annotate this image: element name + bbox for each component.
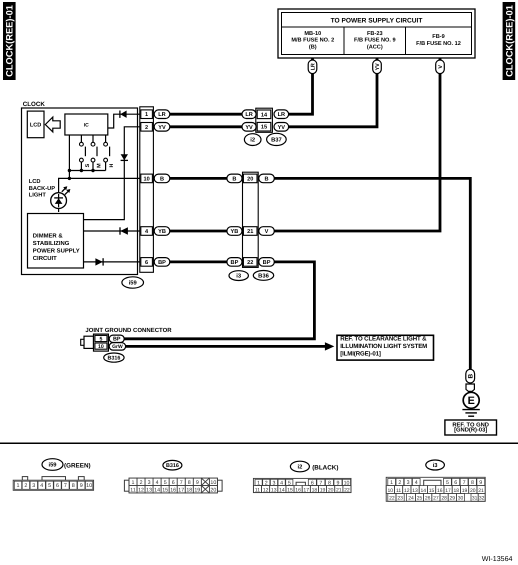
svg-text:JOINT GROUND CONNECTOR: JOINT GROUND CONNECTOR <box>85 327 172 334</box>
wire label B (B36 side, pin 20) <box>259 174 275 183</box>
svg-text:6: 6 <box>172 480 175 486</box>
connector view i3 body <box>386 477 485 501</box>
svg-text:(GREEN): (GREEN) <box>64 462 91 469</box>
connector view i2 (BLACK) body <box>253 478 351 493</box>
svg-text:CIRCUIT: CIRCUIT <box>33 255 57 262</box>
connector i2/B37 bracket <box>256 108 273 132</box>
svg-text:3: 3 <box>32 483 35 489</box>
svg-text:28: 28 <box>441 496 447 502</box>
arrow to clearance/illumination reference <box>325 342 334 350</box>
svg-text:15: 15 <box>261 125 267 131</box>
connector pin 20 <box>243 174 257 183</box>
connector view label i2 <box>290 461 338 472</box>
wire YB clock pin 4 to connector i3 pin 21 <box>170 230 227 233</box>
connector pin 15 <box>257 122 271 131</box>
wire BP from connector B36 pin 22 to joint ground connector pin 5 <box>124 262 314 339</box>
connector label B316 (joint ground) <box>104 353 124 362</box>
wire B from connector B36 pin 20 to ground terminal E <box>274 178 470 384</box>
power supply block frame <box>278 9 475 58</box>
connector pin 21 <box>243 227 257 236</box>
connector i59 body <box>140 107 154 272</box>
wire YV clock pin 2 to connector i2 pin 15 <box>170 125 242 128</box>
wire IC left leg to switch bus <box>68 135 70 178</box>
svg-text:15: 15 <box>287 487 293 493</box>
svg-text:11: 11 <box>396 488 401 494</box>
svg-text:BACK-UP: BACK-UP <box>29 186 55 192</box>
joint ground connector body <box>94 334 109 351</box>
svg-text:20: 20 <box>210 487 216 493</box>
svg-text:B37: B37 <box>271 136 282 143</box>
fuse MB-10 M/B FUSE NO. 2 (B) <box>291 31 334 51</box>
svg-text:19: 19 <box>462 488 468 494</box>
svg-text:REF. TO CLEARANCE LIGHT &: REF. TO CLEARANCE LIGHT & <box>340 335 427 342</box>
svg-text:B316: B316 <box>166 463 179 469</box>
wire label B (i3 side, pin 20) <box>227 174 242 183</box>
svg-text:7: 7 <box>64 483 67 489</box>
page title label left (CLOCK(REE)-01) <box>3 2 16 80</box>
svg-text:3: 3 <box>407 480 410 486</box>
svg-text:22: 22 <box>389 496 395 502</box>
svg-text:26: 26 <box>425 496 431 502</box>
document number <box>482 555 513 563</box>
connector view label i59 <box>42 459 91 471</box>
svg-text:2: 2 <box>24 483 27 489</box>
wire YV from fuse FB-23 down to connector i2 pin 15 <box>289 58 377 127</box>
svg-text:B: B <box>468 373 475 378</box>
svg-text:WI-13564: WI-13564 <box>482 555 513 563</box>
svg-text:BP: BP <box>263 260 271 266</box>
svg-text:7: 7 <box>180 480 183 486</box>
wire label BP (i3 side, pin 22) <box>227 258 242 267</box>
op-amp IC U1 <box>65 114 108 135</box>
svg-text:20: 20 <box>470 488 476 494</box>
svg-text:17: 17 <box>178 487 184 493</box>
svg-text:24: 24 <box>408 496 414 502</box>
svg-text:18: 18 <box>186 487 192 493</box>
connector view i59 (GREEN) body <box>13 477 93 491</box>
svg-text:YV: YV <box>278 125 286 131</box>
wire ACC pin 2 net down to dimmer circuit <box>84 127 141 220</box>
svg-text:14: 14 <box>261 112 268 118</box>
svg-text:30: 30 <box>458 496 464 502</box>
svg-text:IC: IC <box>84 122 89 128</box>
joint ground connector label <box>85 327 172 334</box>
connector i3/B36 bracket <box>243 172 259 267</box>
joint ground connector housing <box>81 336 94 348</box>
svg-text:(ACC): (ACC) <box>367 43 383 50</box>
svg-text:LR: LR <box>158 112 165 118</box>
wire V from fuse FB-9 down to connector B36 pin 21 <box>274 58 440 231</box>
svg-text:M/B FUSE NO. 2: M/B FUSE NO. 2 <box>291 37 334 44</box>
svg-text:B: B <box>232 176 236 182</box>
svg-text:B36: B36 <box>258 272 269 279</box>
svg-text:YV: YV <box>158 125 166 131</box>
svg-text:17: 17 <box>445 488 451 494</box>
svg-text:1: 1 <box>132 480 135 486</box>
reference box clearance/illumination <box>337 335 434 360</box>
svg-text:8: 8 <box>72 483 75 489</box>
svg-text:TO POWER SUPPLY CIRCUIT: TO POWER SUPPLY CIRCUIT <box>331 17 423 24</box>
svg-text:10: 10 <box>210 480 216 486</box>
diode D4 (ground side) <box>95 258 103 265</box>
svg-text:2: 2 <box>398 480 401 486</box>
connector i59 pin 1 <box>141 110 153 119</box>
svg-text:(BLACK): (BLACK) <box>312 464 338 471</box>
svg-text:LCD: LCD <box>29 179 41 185</box>
wire dimmer to pin 6 (BP) <box>84 261 141 263</box>
wire label LR (i2 side, pin 14) <box>242 110 256 119</box>
svg-text:1: 1 <box>17 483 20 489</box>
connector view label i3 <box>426 460 445 470</box>
svg-text:FB-9: FB-9 <box>432 34 444 40</box>
connector i59 pin 4 <box>141 227 153 236</box>
svg-text:i3: i3 <box>236 273 242 280</box>
reference box GND <box>445 420 497 435</box>
wire label LR (B37 side, pin 14) <box>274 110 289 119</box>
svg-text:5: 5 <box>48 483 51 489</box>
svg-text:YB: YB <box>158 229 166 235</box>
svg-text:1: 1 <box>390 480 393 486</box>
wire label BP pin 6 <box>154 258 170 267</box>
svg-text:FB-23: FB-23 <box>367 31 383 37</box>
svg-text:13: 13 <box>146 487 152 493</box>
wire GrW from joint ground connector pin 10 to illumination system <box>126 345 326 348</box>
svg-text:7: 7 <box>463 480 466 486</box>
wire label YV (B37 side, pin 15) <box>274 123 289 132</box>
svg-text:BP: BP <box>113 337 121 343</box>
connector view B316 body <box>124 478 222 493</box>
svg-text:[ILMI(RGE)-01]: [ILMI(RGE)-01] <box>340 350 381 357</box>
svg-text:19: 19 <box>320 487 326 493</box>
svg-text:22: 22 <box>344 487 350 493</box>
wire label B (ground lead) <box>466 369 475 383</box>
svg-text:H: H <box>109 164 115 168</box>
connector view label B316 <box>163 460 182 470</box>
svg-text:2: 2 <box>145 125 148 131</box>
svg-text:8: 8 <box>188 480 191 486</box>
wire label YV (i2 side, pin 15) <box>242 123 256 132</box>
switch H (clock set) <box>104 135 115 171</box>
dimmer and stabilizing power supply circuit box <box>28 214 84 269</box>
svg-text:[GND(R)-03]: [GND(R)-03] <box>454 427 487 434</box>
connector label i3 <box>229 271 248 281</box>
svg-text:LCD: LCD <box>30 123 42 129</box>
svg-text:4: 4 <box>415 480 418 486</box>
svg-text:GrW: GrW <box>112 344 123 350</box>
wire label V (fuse output) <box>436 60 445 74</box>
svg-text:16: 16 <box>170 487 176 493</box>
svg-text:16: 16 <box>437 488 443 494</box>
svg-text:V: V <box>438 65 444 69</box>
svg-text:i2: i2 <box>250 137 255 144</box>
wire label YV pin 2 <box>154 123 170 132</box>
wire label LR (fuse output) <box>308 60 317 74</box>
svg-text:11: 11 <box>255 487 260 493</box>
svg-text:16: 16 <box>295 487 301 493</box>
svg-text:12: 12 <box>404 488 410 494</box>
svg-text:LIGHT: LIGHT <box>29 193 47 199</box>
connector pin 14 <box>257 110 271 119</box>
svg-text:CLOCK(REE)-01: CLOCK(REE)-01 <box>5 5 15 77</box>
connector i59 pin 6 <box>141 258 153 267</box>
svg-text:S: S <box>85 163 91 167</box>
svg-text:YB: YB <box>231 229 239 235</box>
svg-text:YV: YV <box>375 63 381 71</box>
wire label BP (joint ground) <box>109 335 124 343</box>
svg-text:STABILIZING: STABILIZING <box>33 240 70 247</box>
svg-text:18: 18 <box>454 488 460 494</box>
svg-text:MB-10: MB-10 <box>304 31 321 37</box>
svg-text:15: 15 <box>162 487 168 493</box>
svg-text:i3: i3 <box>433 462 439 469</box>
svg-text:4: 4 <box>156 480 159 486</box>
connector pin 22 <box>243 258 257 267</box>
svg-text:18: 18 <box>312 487 318 493</box>
svg-text:27: 27 <box>433 496 439 502</box>
svg-text:i59: i59 <box>48 462 57 469</box>
svg-text:CLOCK(REE)-01: CLOCK(REE)-01 <box>504 5 514 77</box>
svg-text:15: 15 <box>429 488 435 494</box>
svg-text:11: 11 <box>130 487 136 493</box>
svg-text:21: 21 <box>247 229 253 235</box>
wire label YV (fuse output) <box>373 60 382 74</box>
svg-text:POWER SUPPLY: POWER SUPPLY <box>33 248 80 255</box>
joint ground connector pin 10 <box>95 343 107 350</box>
ground terminal lug <box>466 384 474 393</box>
svg-text:B: B <box>160 176 164 182</box>
svg-text:6: 6 <box>454 480 457 486</box>
svg-text:14: 14 <box>154 487 160 493</box>
LCD display <box>27 111 44 138</box>
wire pin 10 net (B) to LED and connector <box>59 178 141 192</box>
wire label V (B36 side, pin 21) <box>259 227 275 236</box>
svg-text:M: M <box>96 163 102 168</box>
svg-text:10: 10 <box>98 344 104 350</box>
svg-text:LR: LR <box>310 63 316 70</box>
svg-text:5: 5 <box>100 336 103 342</box>
svg-text:DIMMER &: DIMMER & <box>33 233 64 240</box>
svg-text:19: 19 <box>194 487 200 493</box>
wire LR from fuse MB-10 down to connector i2 pin 14 <box>289 58 313 114</box>
svg-text:31: 31 <box>472 496 478 502</box>
joint ground connector pin 5 <box>95 335 107 342</box>
svg-text:13: 13 <box>271 487 277 493</box>
connector label B36 <box>253 271 273 281</box>
wire BP clock pin 6 to connector i3 pin 22 <box>170 260 227 263</box>
svg-text:10: 10 <box>86 483 92 489</box>
svg-text:14: 14 <box>279 487 285 493</box>
diode D1 (battery feed) <box>120 111 127 118</box>
connector i59 pin 2 <box>141 123 153 132</box>
svg-text:10: 10 <box>388 488 394 494</box>
svg-text:12: 12 <box>263 487 269 493</box>
svg-text:(B): (B) <box>309 43 317 50</box>
LCD back-up light label <box>29 179 55 199</box>
svg-text:6: 6 <box>145 260 148 266</box>
svg-text:32: 32 <box>479 496 485 502</box>
svg-text:E: E <box>468 395 475 407</box>
connector label i2 <box>244 134 261 146</box>
svg-text:BP: BP <box>158 260 166 266</box>
svg-text:4: 4 <box>40 483 43 489</box>
svg-text:21: 21 <box>336 487 342 493</box>
separator line <box>0 442 518 444</box>
svg-text:13: 13 <box>412 488 418 494</box>
svg-text:10: 10 <box>143 176 149 182</box>
clock unit label <box>23 101 46 108</box>
page title label right (CLOCK(REE)-01) <box>503 2 516 80</box>
wire switch bus <box>69 170 105 172</box>
svg-text:9: 9 <box>196 480 199 486</box>
svg-text:5: 5 <box>164 480 167 486</box>
svg-text:B: B <box>265 176 269 182</box>
diode D2 (ACC feed, vertical) <box>121 154 128 160</box>
svg-text:12: 12 <box>138 487 144 493</box>
ground terminal E <box>463 392 479 408</box>
svg-text:9: 9 <box>479 480 482 486</box>
svg-text:6: 6 <box>56 483 59 489</box>
svg-text:21: 21 <box>478 488 484 494</box>
fuse FB-23 F/B FUSE NO. 9 (ACC) <box>354 31 396 51</box>
wire LR clock pin 1 to connector i2 pin 14 <box>170 113 242 116</box>
svg-text:CLOCK: CLOCK <box>23 101 46 108</box>
svg-text:ILLUMINATION LIGHT SYSTEM: ILLUMINATION LIGHT SYSTEM <box>340 343 427 350</box>
wire label GrW (joint ground) <box>109 343 125 351</box>
wire label YB pin 4 <box>154 227 170 236</box>
wire B clock pin 10 to connector i3 pin 20 <box>170 177 227 180</box>
svg-text:22: 22 <box>247 260 253 266</box>
svg-text:8: 8 <box>471 480 474 486</box>
LED back-up light <box>51 186 71 212</box>
wire IC output to diode D1 (pin 1 net) <box>108 114 141 128</box>
connector label i59 <box>122 277 144 288</box>
svg-text:LR: LR <box>278 112 285 118</box>
svg-text:29: 29 <box>450 496 456 502</box>
svg-text:1: 1 <box>145 112 148 118</box>
svg-text:23: 23 <box>397 496 403 502</box>
svg-text:LR: LR <box>245 112 252 118</box>
block arrow IC to LCD <box>45 117 60 132</box>
svg-text:V: V <box>265 229 269 235</box>
wire label YB (i3 side, pin 21) <box>227 227 242 236</box>
wire dimmer to pin 4 (YB) <box>84 230 141 232</box>
svg-text:17: 17 <box>303 487 309 493</box>
svg-text:B316: B316 <box>107 356 120 362</box>
wire label LR pin 1 <box>154 110 170 119</box>
connector i59 pin 10 <box>141 174 153 183</box>
svg-text:25: 25 <box>417 496 423 502</box>
svg-text:BP: BP <box>231 260 239 266</box>
switch S (clock set) <box>80 135 91 171</box>
svg-text:i59: i59 <box>129 280 138 287</box>
svg-text:YV: YV <box>245 125 253 131</box>
wire label BP (B36 side, pin 22) <box>259 258 275 267</box>
svg-text:9: 9 <box>80 483 83 489</box>
fuse FB-9 F/B FUSE NO. 12 <box>416 34 461 47</box>
connector label B37 <box>267 133 287 145</box>
svg-text:14: 14 <box>421 488 427 494</box>
diode D3 (illumination input) <box>120 227 128 234</box>
ground symbol <box>462 410 479 417</box>
svg-text:i2: i2 <box>297 464 302 471</box>
junction dots switch bus <box>68 169 95 180</box>
clock unit box <box>22 108 138 275</box>
svg-text:20: 20 <box>247 176 253 182</box>
wire label B pin 10 <box>154 174 170 183</box>
svg-text:F/B FUSE NO. 12: F/B FUSE NO. 12 <box>416 40 461 47</box>
svg-text:3: 3 <box>148 480 151 486</box>
svg-text:2: 2 <box>140 480 143 486</box>
svg-text:20: 20 <box>328 487 334 493</box>
switch M (clock set) <box>91 135 102 171</box>
svg-text:5: 5 <box>446 480 449 486</box>
svg-text:F/B FUSE NO. 9: F/B FUSE NO. 9 <box>354 37 396 44</box>
